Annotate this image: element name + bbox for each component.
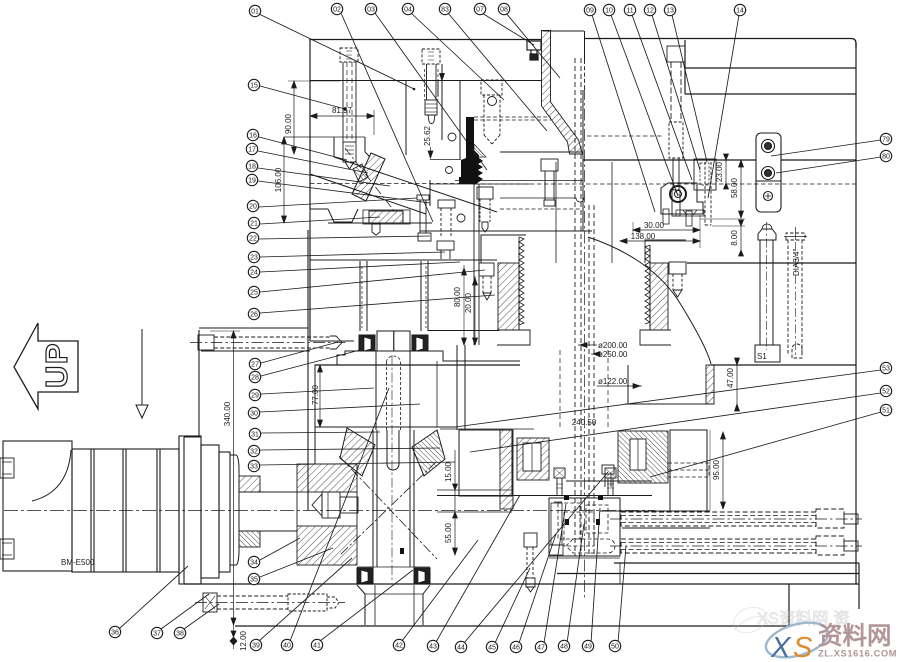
svg-text:30.00: 30.00 — [644, 221, 665, 230]
svg-text:14: 14 — [736, 8, 744, 15]
right flange ring — [625, 365, 714, 404]
left housing plate — [184, 230, 308, 584]
svg-text:95.00: 95.00 — [712, 459, 721, 480]
svg-text:90.00: 90.00 — [284, 113, 293, 134]
wedge block hatched — [352, 153, 385, 201]
svg-text:03: 03 — [367, 7, 375, 14]
svg-text:DIA3/4": DIA3/4" — [792, 249, 801, 276]
svg-text:44: 44 — [457, 645, 465, 652]
leader 53 — [455, 370, 881, 427]
leader 48 — [567, 524, 584, 643]
leader 21 — [260, 217, 380, 224]
UP arrow — [14, 323, 78, 409]
left barrel top block — [481, 235, 526, 263]
svg-text:81.97: 81.97 — [332, 106, 353, 115]
screw DIA34 — [786, 233, 805, 358]
leader 31 — [261, 432, 380, 433]
leader 34 — [260, 538, 300, 560]
pin under gib — [372, 224, 380, 235]
dim 77.00 — [319, 365, 321, 427]
svg-text:80.00: 80.00 — [453, 286, 462, 307]
svg-text:27: 27 — [251, 362, 259, 369]
molded part black — [459, 117, 483, 184]
svg-text:29: 29 — [251, 393, 259, 400]
mid housing walls — [310, 184, 499, 345]
svg-text:BM-E500: BM-E500 — [61, 558, 95, 567]
svg-text:21: 21 — [250, 221, 258, 228]
gear pitch X lines — [339, 456, 437, 559]
leader 41 — [320, 570, 413, 641]
svg-text:45: 45 — [488, 645, 496, 652]
svg-text:22: 22 — [249, 236, 257, 243]
bolt B3 item83 hidden — [481, 80, 502, 144]
pocket radius curve — [588, 237, 711, 364]
svg-text:77.00: 77.00 — [311, 384, 320, 405]
leader 10 — [611, 15, 678, 196]
svg-text:25.62: 25.62 — [423, 125, 432, 146]
svg-text:37: 37 — [153, 631, 161, 638]
svg-text:32: 32 — [250, 449, 258, 456]
svg-text:15: 15 — [250, 83, 258, 90]
svg-text:24: 24 — [250, 270, 258, 277]
leader 52 — [470, 393, 881, 452]
lifter slant faces — [334, 157, 497, 212]
support rod 1 — [621, 509, 844, 528]
svg-text:30: 30 — [250, 411, 258, 418]
svg-text:33: 33 — [250, 464, 258, 471]
cavity edge lines — [430, 159, 461, 161]
svg-text:02: 02 — [333, 7, 341, 14]
leader 32 — [260, 448, 440, 450]
side bolt item27 — [198, 335, 342, 350]
left plates stack edge — [309, 230, 311, 341]
top bearing — [359, 331, 428, 351]
svg-text:79: 79 — [882, 137, 890, 144]
leader 14 — [708, 15, 739, 198]
small screw 07 — [527, 41, 541, 60]
dim 58.00 — [740, 160, 742, 218]
dim 15.00 55.00 — [454, 450, 456, 555]
stepped pin item19 — [477, 187, 493, 232]
svg-text:资料网: 资料网 — [818, 622, 892, 650]
dovetail pocket — [328, 209, 358, 222]
svg-text:34: 34 — [250, 560, 258, 567]
plate line y263 — [687, 262, 856, 264]
screw at parting line item24 — [541, 159, 558, 206]
leader 19 — [258, 181, 430, 203]
dim 25.62 — [440, 74, 445, 81]
box top bolts — [554, 468, 616, 495]
svg-text:51: 51 — [882, 408, 890, 415]
dim 8.00 — [740, 226, 742, 250]
support rect right — [670, 430, 707, 511]
svg-text:240.50: 240.50 — [572, 418, 597, 427]
support rod 2 — [621, 536, 844, 555]
dim 30.00 / 138.00 — [633, 229, 700, 231]
dim 95.00 — [722, 432, 724, 509]
svg-text:46: 46 — [512, 645, 520, 652]
svg-text:80: 80 — [882, 154, 890, 161]
leader 01 — [259, 14, 414, 89]
leader 45 — [495, 568, 530, 643]
svg-text:138.00: 138.00 — [631, 232, 656, 241]
wedge stud — [353, 164, 368, 182]
svg-text:ZL.XS1616.COM: ZL.XS1616.COM — [818, 649, 897, 659]
svg-text:11: 11 — [626, 8, 633, 15]
parting line — [583, 159, 756, 161]
leader 39 — [259, 558, 352, 641]
bolt B1 item15 — [340, 48, 358, 169]
core pocket verticals — [555, 162, 557, 263]
bolt pocket — [333, 137, 335, 157]
leader 49 — [591, 508, 600, 643]
long bolt B4 items09-13 — [667, 46, 685, 216]
locknut hatched block — [297, 464, 357, 565]
leader 12 — [652, 15, 700, 170]
center axis vertical — [584, 88, 586, 598]
leader 33 — [260, 462, 455, 465]
svg-text:48: 48 — [560, 644, 568, 651]
leader 44 — [464, 472, 608, 643]
watermark logo oval — [762, 616, 832, 662]
svg-text:55.00: 55.00 — [444, 522, 453, 543]
lower neck — [357, 585, 430, 625]
dim 81.97 — [310, 115, 374, 117]
bolt item44 — [602, 465, 614, 487]
top plate top edge — [310, 39, 542, 41]
leader 03 — [375, 13, 487, 170]
leader 47 — [544, 504, 566, 643]
svg-text:42: 42 — [395, 643, 403, 650]
svg-text:15.00: 15.00 — [444, 461, 453, 482]
svg-text:28: 28 — [251, 375, 259, 382]
svg-text:ø122.00: ø122.00 — [598, 377, 628, 386]
lower bearing — [357, 567, 430, 584]
bottom-left bolt items37-38 — [203, 593, 339, 612]
rail lines — [600, 430, 710, 528]
svg-text:47.00: 47.00 — [726, 367, 735, 388]
svg-text:ø250.00: ø250.00 — [598, 350, 628, 359]
bolt B2 item03 — [422, 49, 440, 124]
svg-text:38: 38 — [176, 631, 184, 638]
dim 23.00 — [725, 160, 727, 183]
hidden line y136 — [587, 135, 663, 137]
leader 42 — [402, 540, 478, 641]
svg-text:36: 36 — [111, 630, 119, 637]
bell cone right flank — [412, 430, 445, 476]
left edge top plate — [309, 39, 311, 210]
leader 26 — [260, 295, 495, 313]
direction arrow — [136, 329, 148, 418]
leader 37 — [161, 594, 209, 629]
box inner black bits — [564, 495, 603, 525]
svg-text:41: 41 — [313, 643, 321, 650]
leader 24 — [260, 262, 460, 272]
svg-text:20: 20 — [249, 204, 257, 211]
plate step lines right — [685, 67, 856, 69]
leader 40 — [290, 388, 389, 641]
leader 23 — [260, 252, 445, 257]
svg-text:S1: S1 — [757, 352, 767, 361]
dim 340.00 — [233, 331, 235, 625]
svg-text:23.00: 23.00 — [715, 161, 724, 182]
leader 83 — [448, 13, 547, 131]
svg-text:07: 07 — [476, 7, 484, 14]
svg-text:52: 52 — [882, 389, 890, 396]
svg-text:12.00: 12.00 — [239, 630, 248, 651]
svg-text:47: 47 — [537, 645, 545, 652]
leader 16 — [259, 137, 347, 160]
ejector gear box — [549, 498, 620, 558]
right edge of mold base — [855, 43, 857, 584]
leader 08 — [506, 13, 560, 78]
hidden line y183 — [310, 183, 474, 185]
sprue hatch band — [542, 31, 583, 155]
svg-text:35: 35 — [250, 577, 258, 584]
leader 04 — [411, 13, 504, 100]
right gear block hatched — [618, 431, 668, 483]
svg-text:UP: UP — [39, 342, 74, 388]
dim texts — [223, 106, 739, 651]
hidden slot right — [668, 463, 709, 477]
svg-text:13: 13 — [666, 8, 674, 15]
svg-text:53: 53 — [882, 366, 890, 373]
svg-text:01: 01 — [251, 9, 259, 16]
support plate section — [437, 430, 512, 512]
right barrel bolt — [669, 262, 686, 297]
quill lower walls — [373, 430, 414, 567]
slide area base — [310, 259, 497, 261]
leader 51 — [650, 412, 881, 477]
leader 46 — [519, 534, 556, 643]
B plate top left — [315, 364, 520, 366]
svg-text:40: 40 — [283, 643, 291, 650]
dim 80.00 20.00 — [463, 265, 465, 345]
latch lock plate items79-80 — [756, 133, 781, 212]
B plate top right — [711, 364, 856, 366]
insert circles — [448, 133, 456, 141]
leader 50 — [618, 546, 626, 643]
leader 15 — [260, 86, 345, 109]
leader 27 — [261, 342, 338, 363]
svg-text:25: 25 — [250, 290, 258, 297]
dia dims arrows — [578, 344, 597, 346]
sprue circle — [488, 97, 497, 106]
support hatch column — [500, 430, 513, 509]
svg-text:340.00: 340.00 — [223, 401, 232, 426]
svg-text:16: 16 — [249, 133, 257, 140]
leader 07 — [482, 13, 534, 45]
main horizontal axis — [4, 510, 655, 512]
svg-text:83: 83 — [441, 7, 449, 14]
watermark ghost — [730, 603, 850, 637]
svg-text:18: 18 — [248, 164, 256, 171]
flange outline — [315, 345, 534, 464]
leader 30 — [260, 404, 420, 412]
bell cone left flank — [340, 428, 375, 476]
central dashed tie bars — [560, 58, 608, 556]
svg-text:X: X — [770, 632, 792, 662]
leader 18 — [258, 168, 390, 186]
leader 25 — [260, 270, 485, 292]
cavity insert outline — [310, 64, 584, 231]
angle bracket item10 — [661, 183, 703, 226]
leader 20 — [259, 198, 417, 207]
dim 47.00 — [736, 365, 738, 404]
leader 17 — [258, 151, 368, 173]
gate hatched triangle — [474, 144, 486, 157]
right barrel threads+hatch — [640, 240, 686, 345]
leader 22 — [259, 236, 430, 239]
svg-text:31: 31 — [251, 432, 259, 439]
svg-text:43: 43 — [429, 644, 437, 651]
lifter axis — [345, 148, 395, 212]
left barrel threads+hatch — [497, 237, 530, 345]
leader 09 — [592, 15, 655, 212]
stop pin item45 — [524, 533, 537, 592]
motor body — [0, 436, 239, 584]
leader 36 — [119, 566, 188, 629]
left barrel bolt — [479, 263, 494, 300]
leader 02 — [341, 13, 433, 222]
svg-text:39: 39 — [252, 643, 260, 650]
leader 43 — [436, 495, 520, 642]
svg-text:8.00: 8.00 — [730, 230, 739, 246]
leader 28 — [261, 350, 360, 376]
svg-text:58.00: 58.00 — [730, 177, 739, 198]
T-post item20 — [417, 195, 431, 241]
svg-text:04: 04 — [404, 7, 412, 14]
svg-text:20.00: 20.00 — [464, 292, 473, 313]
svg-text:12: 12 — [646, 8, 654, 15]
motor shaft stubs — [239, 476, 260, 492]
bottom plate lines — [614, 562, 859, 564]
spring post item22 — [437, 200, 465, 259]
leader 29 — [261, 388, 374, 394]
hex bolt in window — [312, 492, 358, 518]
svg-text:10: 10 — [605, 8, 613, 15]
leader 80 — [776, 157, 881, 173]
leader 79 — [771, 140, 881, 156]
hidden lines under flange — [201, 350, 310, 352]
leader 13 — [672, 15, 707, 162]
svg-text:26: 26 — [250, 312, 258, 319]
main outline group — [184, 31, 859, 626]
leader 38 — [184, 604, 219, 629]
svg-text:08: 08 — [500, 7, 508, 14]
svg-text:50: 50 — [611, 644, 619, 651]
svg-text:19: 19 — [248, 178, 256, 185]
dim 106.00 — [283, 137, 285, 223]
svg-text:23: 23 — [250, 255, 258, 262]
svg-text:ø200.00: ø200.00 — [598, 341, 628, 350]
gib block hatched — [369, 211, 403, 223]
svg-text:49: 49 — [584, 644, 592, 651]
leader 11 — [632, 15, 692, 180]
screw S1 — [755, 222, 780, 362]
quill upper — [376, 331, 410, 580]
left gear block hatched — [517, 438, 549, 480]
leader 35 — [260, 548, 333, 577]
dimensions — [210, 74, 745, 650]
svg-text:17: 17 — [248, 147, 256, 154]
plate lines above box — [566, 480, 652, 482]
latch plate items12-13 — [676, 159, 716, 225]
svg-text:S: S — [793, 632, 813, 662]
dim 12.00 — [233, 625, 235, 649]
top-left plate bottom profile — [284, 137, 592, 260]
small black key — [400, 548, 404, 554]
svg-text:09: 09 — [586, 8, 594, 15]
dim 90.00 — [293, 81, 295, 154]
